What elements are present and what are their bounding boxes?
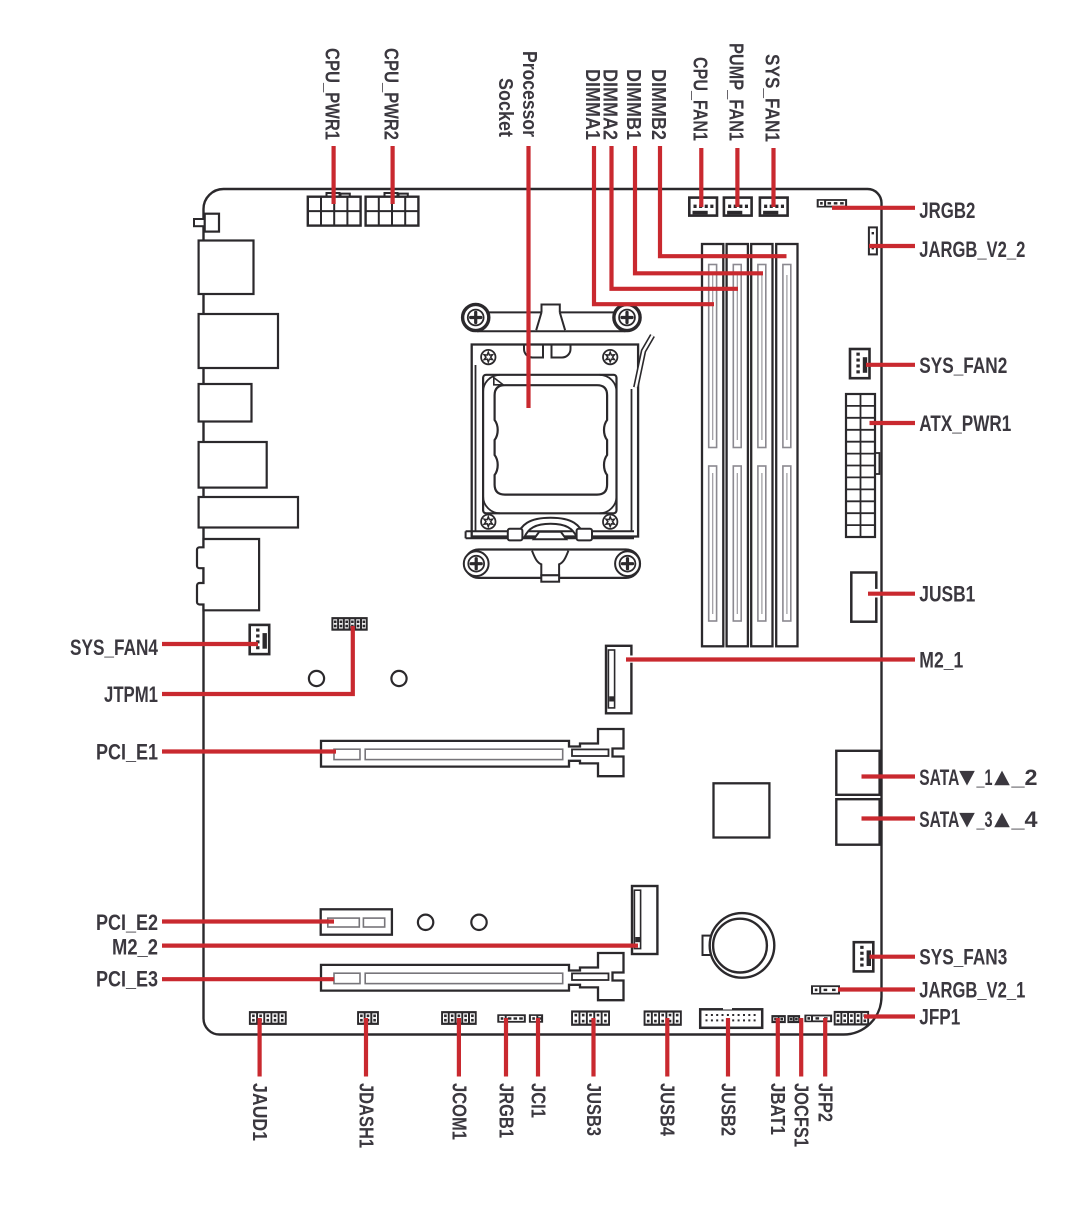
motherboard outline [204,189,882,1035]
connector JDASH1 [357,1011,379,1025]
callout line DIMMA1 [594,146,714,304]
svg-text:JRGB2: JRGB2 [919,198,975,223]
callout line JFP2 [823,1018,827,1077]
connector JTPM1 [331,617,367,631]
connector PUMP_FAN1 [724,198,752,216]
PCIe slot PCI_E2 [321,909,392,934]
svg-text:JUSB3: JUSB3 [582,1083,604,1136]
DIMM slot DIMMB2 [776,244,797,646]
svg-text:SATA: SATA [919,765,959,790]
callout line JTPM1 [162,626,353,694]
connector SYS_FAN4 [250,625,270,654]
svg-text:PCI_E3: PCI_E3 [96,967,158,992]
connector JCOM1 [441,1011,477,1025]
connector JRGB1 [497,1014,526,1022]
callout line JOCFS1 [799,1018,803,1077]
svg-text:JBAT1: JBAT1 [766,1083,788,1135]
svg-text:SYS_FAN2: SYS_FAN2 [919,353,1007,378]
connector JUSB2 [700,1009,762,1028]
svg-text:JAUD1: JAUD1 [248,1083,270,1141]
svg-text:JDASH1: JDASH1 [354,1083,376,1148]
callout line PCI_E3 [162,977,334,981]
connector CPU_PWR1 [327,193,340,197]
svg-text:SATA: SATA [919,807,959,832]
callout line ATX_PWR1 [870,421,916,425]
mounting hole [418,915,433,930]
callout line JCOM1 [457,1018,461,1077]
svg-text:CPU_FAN1: CPU_FAN1 [688,57,710,141]
callout line DIMMB1 [635,146,763,273]
svg-text:JFP1: JFP1 [919,1005,960,1030]
rear I/O block B [199,314,278,368]
connector JARGB_V2_1 [811,985,840,994]
callout line JRGB2 [832,206,915,210]
svg-text:PUMP_FAN1: PUMP_FAN1 [724,43,746,141]
svg-text:JTPM1: JTPM1 [104,682,158,707]
DIMM slot DIMMB1 [751,244,772,646]
svg-text:PCI_E1: PCI_E1 [96,740,158,765]
svg-text:_1: _1 [976,765,993,790]
svg-text:DIMMB2: DIMMB2 [647,69,669,140]
connector JCI1 [529,1014,543,1022]
rear I/O audio block [197,539,259,610]
callout line JAUD1 [258,1018,262,1077]
M.2 connector M2_2 [632,886,657,954]
svg-text:JFP2: JFP2 [814,1083,836,1122]
PCIe slot PCI_E3 [321,953,624,1000]
battery BAT1 [703,936,712,955]
callout line SATA_3_4 [862,816,916,820]
svg-text:JUSB1: JUSB1 [919,582,975,607]
svg-text:ATX_PWR1: ATX_PWR1 [919,411,1011,436]
connector CPU_PWR2 [385,193,398,197]
callout line SYS_FAN4 [162,642,258,646]
callout line JARGB_V2_1 [838,987,915,991]
callout line JRGB1 [504,1018,508,1077]
callout line JBAT1 [776,1018,780,1077]
svg-text:JUSB2: JUSB2 [716,1083,738,1136]
svg-text:JARGB_V2_2: JARGB_V2_2 [919,237,1025,262]
callout line SYS_FAN2 [866,363,915,367]
svg-text:M2_2: M2_2 [112,935,158,960]
DIMM slot DIMMA2 [727,244,748,646]
svg-text:JCOM1: JCOM1 [447,1083,469,1140]
rear I/O block C [199,384,252,422]
connector JARGB_V2_2 [869,227,877,254]
svg-text:M2_1: M2_1 [919,648,963,673]
connector JUSB1 [851,573,876,622]
callout line JCI1 [536,1018,540,1077]
svg-text:DIMMB1: DIMMB1 [622,69,644,140]
rear I/O LAN block [199,497,298,528]
rear I/O block D [199,442,267,488]
connector SYS_FAN1 [760,198,788,216]
CPU socket Processor Socket [462,304,653,541]
svg-text:SYS_FAN3: SYS_FAN3 [919,945,1007,970]
svg-text:_3: _3 [976,807,993,832]
rear I/O PS/2 tab [194,219,206,226]
svg-text:JUSB4: JUSB4 [656,1083,678,1137]
svg-text:JARGB_V2_1: JARGB_V2_1 [919,978,1025,1003]
callout line SYS_FAN1 [771,148,775,207]
callout line DIMMB2 [660,146,787,256]
svg-text:JOCFS1: JOCFS1 [790,1083,812,1147]
svg-text:CPU_PWR2: CPU_PWR2 [379,48,401,140]
callout line JFP1 [864,1014,915,1018]
connector JBAT1 [771,1015,785,1023]
connector JRGB2 [817,199,847,207]
callout line JDASH1 [364,1018,368,1077]
connector JAUD1 [249,1011,287,1025]
callout line M2_2 [162,943,638,947]
callout line CPU_PWR1 [332,146,336,204]
svg-text:JRGB1: JRGB1 [494,1083,516,1138]
connector JFP1 [834,1011,869,1026]
svg-text:CPU_PWR1: CPU_PWR1 [320,48,342,140]
rear I/O block USB A [199,241,254,295]
callout line JUSB4 [665,1018,669,1077]
callout line DIMMA2 [612,146,739,289]
svg-text:_4: _4 [1010,807,1038,832]
svg-text:Processor: Processor [518,51,540,137]
connector JUSB3 [571,1010,610,1025]
connector ATX_PWR1 [875,453,879,474]
callout line SATA_1_2 [862,774,916,778]
svg-text:SYS_FAN1: SYS_FAN1 [760,54,782,142]
connector SYS_FAN2 [850,349,870,378]
callout line CPU_PWR2 [391,146,395,204]
callout line JUSB1 [868,592,915,596]
callout line Processor Socket [526,146,530,408]
DIMM slot DIMMA1 [702,244,723,646]
callout line JUSB3 [591,1018,595,1077]
callout line CPU_FAN1 [699,148,703,207]
connector JFP2 [804,1015,832,1023]
svg-text:PCI_E2: PCI_E2 [96,910,158,935]
mounting hole [471,915,486,930]
callout line PUMP_FAN1 [735,148,739,207]
callout line JUSB2 [726,1018,730,1077]
connector SYS_FAN3 [854,942,874,971]
svg-text:JCI1: JCI1 [526,1083,548,1118]
callout line JARGB_V2_2 [869,244,915,248]
svg-text:_2: _2 [1010,765,1037,790]
svg-text:DIMMA2: DIMMA2 [598,69,620,140]
connector JOCFS1 [787,1015,800,1023]
callout line PCI_E1 [162,749,336,753]
mounting hole [309,671,324,686]
callout line PCI_E2 [162,919,334,923]
mounting hole [391,671,406,686]
connector CPU_FAN1 [689,198,717,216]
connector JUSB4 [644,1010,682,1025]
connector SATA_1_2 [836,751,879,795]
svg-text:Socket: Socket [494,78,516,137]
svg-text:SYS_FAN4: SYS_FAN4 [70,635,159,660]
callout line M2_1 [626,657,915,661]
PCIe slot PCI_E1 [321,729,624,776]
M.2 connector M2_1 [606,646,631,714]
connector SATA_3_4 [836,799,879,845]
callout line SYS_FAN3 [870,955,916,959]
chipset square [714,783,770,837]
